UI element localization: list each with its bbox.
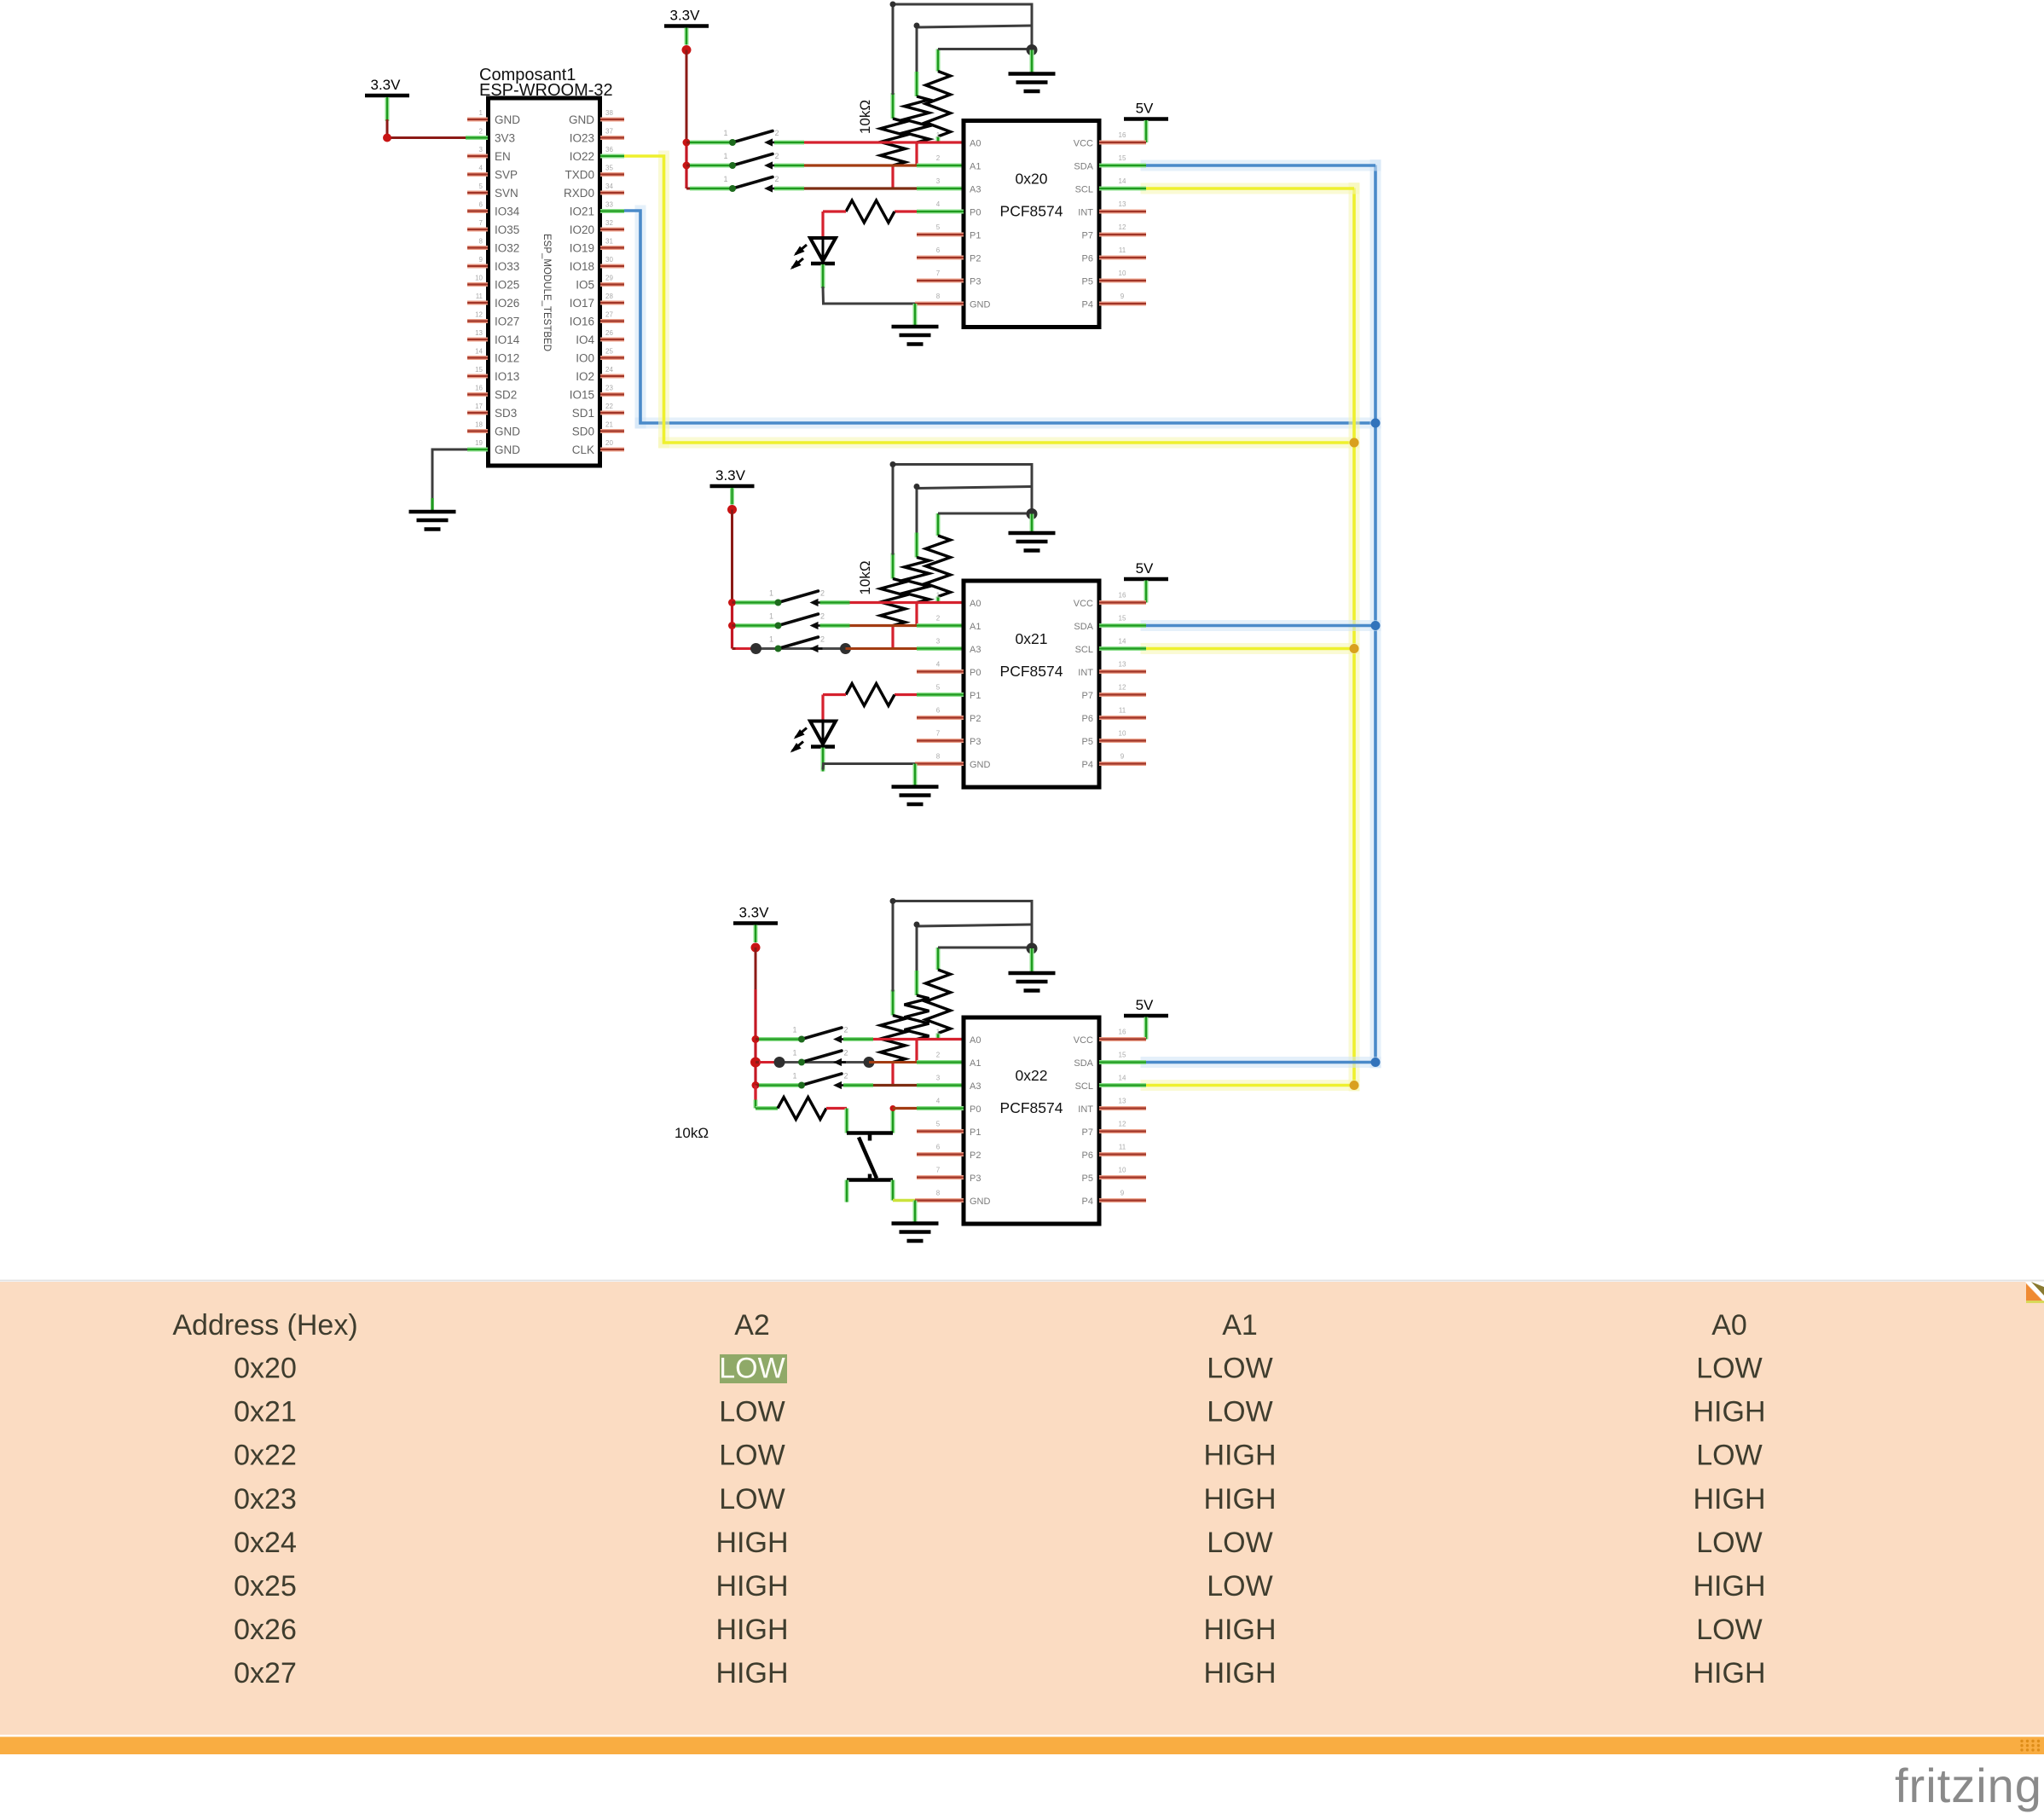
pushbutton SW10 <box>847 1133 893 1180</box>
junction bus/A3 0x22 <box>752 1081 760 1089</box>
svg-text:LOW: LOW <box>719 1483 785 1516</box>
power symbol 3.3V supply for PCF8574 0x22 <box>733 905 778 943</box>
svg-text:37: 37 <box>605 128 613 136</box>
LED D1 0x20 <box>790 238 836 269</box>
svg-text:8: 8 <box>479 238 483 246</box>
svg-text:IO26: IO26 <box>495 297 519 310</box>
junction 3.3V bus top 0x22 <box>751 943 761 953</box>
pin stub INT 0x22 <box>1099 1106 1146 1110</box>
wire resistor to A1 row 0x20 <box>915 142 918 165</box>
svg-text:P1: P1 <box>970 1127 981 1138</box>
pin stub P6 0x22 <box>1099 1152 1146 1156</box>
pin stub P3 0x21 <box>917 739 964 743</box>
svg-text:GND: GND <box>970 1197 991 1207</box>
svg-text:fritzing: fritzing <box>1895 1759 2042 1812</box>
resistor R5 10k pulldown A1 0x21 <box>905 487 929 603</box>
svg-text:2: 2 <box>479 128 483 136</box>
pin stub P6 0x21 <box>1099 716 1146 720</box>
table address configuration <box>0 1281 2044 1736</box>
svg-text:P4: P4 <box>1082 300 1093 310</box>
svg-text:3.3V: 3.3V <box>371 77 402 93</box>
svg-text:LOW: LOW <box>1696 1527 1762 1559</box>
pin stub GND 0x22 <box>915 1198 964 1203</box>
svg-text:GND: GND <box>495 426 520 438</box>
svg-text:2: 2 <box>820 635 825 644</box>
svg-text:2: 2 <box>843 1049 848 1058</box>
svg-text:IO27: IO27 <box>495 316 519 328</box>
svg-text:3V3: 3V3 <box>495 132 515 145</box>
svg-text:5V: 5V <box>1136 560 1154 577</box>
svg-text:8: 8 <box>936 753 941 761</box>
IC U3 PCF8574 0x21 <box>936 581 1126 787</box>
junction SDA 0x22 <box>1371 1058 1381 1067</box>
svg-text:EN: EN <box>495 150 511 163</box>
svg-text:IO14: IO14 <box>495 333 520 346</box>
svg-text:2: 2 <box>936 1052 941 1059</box>
wire switch to A3 pin 0x21 <box>846 647 964 650</box>
svg-text:16: 16 <box>1119 1029 1126 1036</box>
pin stub P5 0x20 <box>1099 279 1146 283</box>
pin stub P0 0x21 <box>917 669 964 674</box>
wire junction to ground symbol 0x22 <box>1030 948 1034 973</box>
svg-text:ESP-WROOM-32: ESP-WROOM-32 <box>479 81 613 100</box>
svg-text:10kΩ: 10kΩ <box>857 100 873 134</box>
wire resistor tops to ground 0x21 <box>890 461 1033 555</box>
svg-text:5: 5 <box>936 684 941 692</box>
svg-text:0x21: 0x21 <box>234 1396 297 1429</box>
svg-text:A0: A0 <box>970 599 981 609</box>
svg-text:15: 15 <box>1119 1052 1126 1059</box>
svg-text:GND: GND <box>495 113 520 126</box>
wire 3.3V bus to switch row A0 0x20 <box>686 142 732 144</box>
resistor R10 10k to button 0x22 <box>756 1086 847 1120</box>
svg-text:1: 1 <box>723 129 727 137</box>
wire resistor tops to ground 0x22 <box>890 898 1033 992</box>
svg-text:A1: A1 <box>1222 1309 1258 1342</box>
resistor R4 10k pulldown A0 0x21 <box>926 513 951 603</box>
svg-text:14: 14 <box>1119 1075 1126 1082</box>
svg-text:P0: P0 <box>970 208 981 218</box>
pin stub P5 0x22 <box>1099 1175 1146 1179</box>
svg-text:P2: P2 <box>970 254 981 264</box>
svg-text:0x25: 0x25 <box>234 1570 297 1602</box>
resistor R9 10k pulldown A3 0x22 <box>881 901 906 1063</box>
junction ground node 0x22 <box>1027 943 1038 954</box>
wire SCL 0x22 <box>1099 1080 1354 1091</box>
junction bus/A0 0x20 <box>683 139 691 147</box>
svg-text:3.3V: 3.3V <box>715 467 746 484</box>
svg-text:0x26: 0x26 <box>234 1614 297 1646</box>
svg-text:IO33: IO33 <box>495 260 519 273</box>
pin stub P4 0x22 <box>1099 1198 1146 1203</box>
svg-text:2: 2 <box>774 152 779 160</box>
svg-text:HIGH: HIGH <box>1204 1657 1277 1689</box>
svg-text:38: 38 <box>605 109 613 117</box>
svg-text:2: 2 <box>820 589 825 598</box>
junction bus/A1 0x22 <box>750 1058 761 1068</box>
ground symbol below 0x22 <box>892 1224 939 1242</box>
wire switch to A1 pin 0x21 <box>820 623 964 628</box>
svg-text:P4: P4 <box>1082 1197 1093 1207</box>
svg-text:A3: A3 <box>970 645 981 655</box>
switch S9 on A3 0x22 <box>792 1072 848 1090</box>
svg-text:7: 7 <box>936 269 941 277</box>
svg-text:Address (Hex): Address (Hex) <box>172 1309 357 1342</box>
svg-text:IO16: IO16 <box>570 316 594 328</box>
svg-text:LOW: LOW <box>1696 1614 1762 1646</box>
pin stub P7 0x20 <box>1099 233 1146 237</box>
wire button pin3 stub <box>845 1180 849 1203</box>
svg-text:1: 1 <box>479 109 483 117</box>
svg-text:IO18: IO18 <box>570 260 594 273</box>
svg-text:1: 1 <box>792 1049 796 1058</box>
wire resistor to A3 row 0x21 <box>891 626 894 649</box>
svg-text:12: 12 <box>1119 684 1126 692</box>
svg-text:2: 2 <box>843 1072 848 1081</box>
svg-text:HIGH: HIGH <box>1204 1483 1277 1516</box>
svg-text:14: 14 <box>1119 177 1126 185</box>
wire switch to A3 pin 0x22 <box>843 1083 964 1087</box>
svg-text:INT: INT <box>1078 208 1093 218</box>
svg-text:3: 3 <box>479 146 483 154</box>
svg-text:7: 7 <box>479 219 483 227</box>
svg-text:HIGH: HIGH <box>716 1657 789 1689</box>
svg-text:LOW: LOW <box>719 1353 785 1385</box>
svg-text:SDA: SDA <box>1074 1058 1093 1069</box>
svg-text:1: 1 <box>769 589 773 598</box>
wire SCL 0x20 <box>1099 183 1354 194</box>
svg-text:3: 3 <box>936 1075 941 1082</box>
svg-text:SVP: SVP <box>495 169 518 182</box>
svg-text:13: 13 <box>1119 200 1126 208</box>
svg-text:INT: INT <box>1078 668 1093 678</box>
svg-text:HIGH: HIGH <box>716 1614 789 1646</box>
svg-text:23: 23 <box>605 385 613 392</box>
switch S4 on A0 0x21 <box>769 589 825 607</box>
svg-text:7: 7 <box>936 730 941 738</box>
svg-text:IO34: IO34 <box>495 206 520 218</box>
wire switch to A1 pin 0x22 <box>869 1061 964 1063</box>
svg-text:IO22: IO22 <box>570 150 594 163</box>
wire SDA 0x22 <box>1099 1057 1375 1068</box>
junction SDA at ESP branch <box>1371 419 1381 428</box>
ground symbol below 0x20 <box>892 327 939 345</box>
svg-text:5V: 5V <box>1136 997 1154 1013</box>
svg-text:LOW: LOW <box>1207 1527 1272 1559</box>
svg-text:4: 4 <box>479 165 483 172</box>
ground symbol below 0x21 <box>892 787 939 805</box>
wire SCL vertical trunk <box>1349 188 1360 1087</box>
switch S3 on A3 0x20 <box>723 175 779 193</box>
svg-text:SDA: SDA <box>1074 622 1093 632</box>
svg-text:25: 25 <box>605 348 613 356</box>
resistor R1 10k pulldown A0 0x20 <box>926 49 951 143</box>
svg-text:P6: P6 <box>1082 1150 1093 1161</box>
svg-text:14: 14 <box>1119 638 1126 646</box>
svg-text:P2: P2 <box>970 1150 981 1161</box>
power symbol 3.3V supply for PCF8574 0x20 <box>664 8 709 45</box>
resistor R8 10k pulldown A1 0x22 <box>905 924 929 1040</box>
svg-text:HIGH: HIGH <box>1694 1396 1766 1429</box>
pin stub P2 0x21 <box>917 716 964 720</box>
svg-text:P7: P7 <box>1082 231 1093 241</box>
pin stub INT 0x20 <box>1099 210 1146 214</box>
svg-text:IO23: IO23 <box>570 132 594 145</box>
pin stub P1 0x22 <box>917 1129 964 1133</box>
wire resistor to A3 row 0x20 <box>891 165 894 188</box>
svg-text:A1: A1 <box>970 1058 981 1069</box>
pin stub P5 0x21 <box>1099 739 1146 743</box>
svg-text:11: 11 <box>476 293 483 300</box>
LED D2 0x21 <box>790 722 836 753</box>
svg-text:1: 1 <box>936 1029 941 1036</box>
svg-text:0x20: 0x20 <box>234 1353 297 1385</box>
wire resistor to button pin1 <box>845 1109 849 1133</box>
wire resistor to A3 row 0x22 <box>891 1063 894 1086</box>
pin stub P4 0x20 <box>1099 302 1146 306</box>
svg-text:HIGH: HIGH <box>716 1570 789 1602</box>
pin stub INT 0x21 <box>1099 669 1146 674</box>
svg-text:14: 14 <box>475 348 483 356</box>
svg-text:VCC: VCC <box>1074 599 1093 609</box>
switch S1 on A0 0x20 <box>723 129 779 147</box>
pin stub VCC 0x20 <box>1099 141 1146 145</box>
wire switch to A0 pin 0x20 <box>774 141 964 145</box>
svg-text:22: 22 <box>605 403 613 410</box>
svg-text:LOW: LOW <box>1207 1396 1272 1429</box>
svg-text:SD3: SD3 <box>495 407 517 420</box>
wire 3.3V supply to ESP 3V3 pin <box>387 97 488 138</box>
svg-text:VCC: VCC <box>1074 139 1093 149</box>
svg-text:PCF8574: PCF8574 <box>1000 1099 1063 1116</box>
ground symbol top right 0x22 <box>1009 973 1056 991</box>
svg-text:INT: INT <box>1078 1104 1093 1115</box>
svg-text:26: 26 <box>605 329 613 337</box>
svg-text:IO32: IO32 <box>495 242 519 255</box>
svg-text:PCF8574: PCF8574 <box>1000 663 1063 680</box>
pin stub P2 0x22 <box>917 1152 964 1156</box>
wire 3.3V bus 0x22 <box>755 948 757 989</box>
pin stub P3 0x20 <box>917 279 964 283</box>
power symbol 3.3V supply for PCF8574 0x21 <box>710 467 755 505</box>
svg-text:0x23: 0x23 <box>234 1483 297 1516</box>
svg-text:6: 6 <box>936 246 941 254</box>
power symbol 3.3V supply for ESP <box>365 77 409 96</box>
svg-text:LOW: LOW <box>719 1440 785 1472</box>
svg-text:CLK: CLK <box>572 443 594 456</box>
svg-text:LOW: LOW <box>1696 1440 1762 1472</box>
wire resistor to LED anode 0x21 <box>821 695 824 722</box>
svg-text:2: 2 <box>936 615 941 623</box>
svg-text:4: 4 <box>936 200 941 208</box>
svg-text:VCC: VCC <box>1074 1035 1093 1046</box>
svg-text:21: 21 <box>605 421 613 429</box>
svg-text:2: 2 <box>936 154 941 162</box>
svg-text:13: 13 <box>1119 661 1126 669</box>
pin stub P7 0x21 <box>1099 693 1146 697</box>
pin stub P1 0x20 <box>917 233 964 237</box>
wire button pin4 to GND <box>893 1180 915 1201</box>
wire 3.3V bus to switch row A3 0x21 <box>732 643 852 654</box>
svg-text:ESP_MODULE_TESTBED: ESP_MODULE_TESTBED <box>541 234 552 351</box>
wire ESP GND pin 19 to ground <box>432 449 488 512</box>
svg-text:6: 6 <box>936 1144 941 1151</box>
svg-text:10: 10 <box>475 275 483 282</box>
power symbol 5V supply 0x21 <box>1124 560 1168 603</box>
svg-text:35: 35 <box>605 165 613 172</box>
svg-text:HIGH: HIGH <box>1204 1614 1277 1646</box>
svg-text:P4: P4 <box>1082 760 1093 770</box>
junction bus/A0 0x22 <box>752 1035 760 1043</box>
IC U4 PCF8574 0x22 <box>936 1017 1126 1224</box>
svg-text:P3: P3 <box>970 277 981 287</box>
power symbol 5V supply 0x22 <box>1124 997 1168 1040</box>
svg-text:5: 5 <box>479 183 483 190</box>
junction ground node 0x20 <box>1027 44 1038 55</box>
svg-text:HIGH: HIGH <box>716 1527 789 1559</box>
wire 3.3V bus 0x21 <box>731 510 733 603</box>
svg-text:12: 12 <box>1119 223 1126 231</box>
wire junction to ground symbol 0x21 <box>1030 514 1034 534</box>
svg-text:A1: A1 <box>970 162 981 172</box>
svg-text:TXD0: TXD0 <box>565 169 594 182</box>
pin stub P2 0x20 <box>917 256 964 260</box>
wire LED cathode to GND pin 0x20 <box>823 264 915 304</box>
resistor R2 10k pulldown A1 0x20 <box>905 26 929 142</box>
svg-text:GND: GND <box>970 760 991 770</box>
svg-text:IO21: IO21 <box>570 206 594 218</box>
svg-text:27: 27 <box>605 311 613 319</box>
junction bus/A0 0x21 <box>728 599 736 606</box>
svg-text:IO15: IO15 <box>570 389 594 402</box>
svg-text:0x20: 0x20 <box>1016 171 1048 188</box>
wire resistor tops to ground 0x20 <box>890 2 1033 96</box>
svg-text:HIGH: HIGH <box>1694 1570 1766 1602</box>
pin stub P3 0x22 <box>917 1175 964 1179</box>
svg-text:2: 2 <box>843 1026 848 1035</box>
svg-text:P6: P6 <box>1082 254 1093 264</box>
svg-text:8: 8 <box>936 293 941 300</box>
svg-text:IO19: IO19 <box>570 242 594 255</box>
svg-text:P1: P1 <box>970 691 981 701</box>
svg-text:11: 11 <box>1119 246 1126 254</box>
svg-text:P0: P0 <box>970 1104 981 1115</box>
svg-text:31: 31 <box>605 238 613 246</box>
svg-text:4: 4 <box>936 1098 941 1105</box>
svg-text:IO0: IO0 <box>576 352 594 365</box>
pin stub VCC 0x22 <box>1099 1037 1146 1041</box>
junction 3.3V bus top 0x21 <box>727 505 737 514</box>
svg-text:1: 1 <box>769 612 773 621</box>
svg-text:2: 2 <box>820 612 825 621</box>
svg-text:P1: P1 <box>970 231 981 241</box>
wire 3.3V bus to switch row A0 0x21 <box>732 601 779 604</box>
svg-text:0x22: 0x22 <box>1016 1067 1048 1084</box>
svg-text:LOW: LOW <box>1207 1570 1272 1602</box>
svg-text:3.3V: 3.3V <box>670 8 701 24</box>
wire 3.3V bus to switch row A1 0x20 <box>686 165 732 167</box>
wire SDA 0x21 <box>1099 620 1375 631</box>
svg-text:LOW: LOW <box>1207 1353 1272 1385</box>
pin stub GND 0x21 <box>915 762 964 766</box>
svg-text:5V: 5V <box>1136 101 1154 117</box>
svg-text:A2: A2 <box>734 1309 770 1342</box>
wire 3.3V bus to switch row A1 0x21 <box>732 624 779 627</box>
resistor R6 10k pulldown A3 0x21 <box>881 465 906 626</box>
svg-text:1: 1 <box>792 1072 796 1081</box>
svg-text:1: 1 <box>723 175 727 183</box>
ground symbol top right 0x21 <box>1009 533 1056 551</box>
svg-text:16: 16 <box>475 385 483 392</box>
svg-text:SCL: SCL <box>1075 1081 1093 1092</box>
resistor R_led 330 0x21 <box>823 684 964 706</box>
svg-text:A3: A3 <box>970 1081 981 1092</box>
junction SDA 0x21 <box>1371 621 1381 630</box>
svg-text:A0: A0 <box>970 139 981 149</box>
switch S6 on A3 0x21 <box>769 635 825 653</box>
svg-text:36: 36 <box>605 146 613 154</box>
svg-text:SCL: SCL <box>1075 185 1093 195</box>
pin stub P4 0x21 <box>1099 762 1146 766</box>
wire LED cathode to GND pin 0x21 <box>823 748 915 772</box>
svg-text:SD2: SD2 <box>495 389 517 402</box>
svg-text:10: 10 <box>1119 269 1126 277</box>
svg-text:9: 9 <box>1120 753 1125 761</box>
svg-text:6: 6 <box>936 707 941 715</box>
svg-text:19: 19 <box>475 439 483 447</box>
svg-text:1: 1 <box>723 152 727 160</box>
svg-text:P7: P7 <box>1082 691 1093 701</box>
wire resistor to LED anode 0x20 <box>821 212 824 239</box>
svg-text:A3: A3 <box>970 185 981 195</box>
svg-text:SVN: SVN <box>495 187 518 200</box>
wire SDA vertical trunk <box>1370 165 1381 1063</box>
svg-text:P2: P2 <box>970 714 981 724</box>
svg-text:4: 4 <box>936 661 941 669</box>
svg-text:P3: P3 <box>970 1174 981 1184</box>
table bottom bar <box>0 1737 2044 1755</box>
svg-text:IO2: IO2 <box>576 370 594 383</box>
junction bus/A1 0x21 <box>728 622 736 629</box>
svg-text:2: 2 <box>774 129 779 137</box>
svg-text:RXD0: RXD0 <box>564 187 594 200</box>
wire resistor to A1 row 0x22 <box>915 1040 918 1063</box>
svg-text:A1: A1 <box>970 622 981 632</box>
svg-text:15: 15 <box>1119 154 1126 162</box>
svg-text:HIGH: HIGH <box>1694 1657 1766 1689</box>
svg-text:GND: GND <box>569 113 594 126</box>
svg-text:33: 33 <box>605 201 613 209</box>
svg-text:3: 3 <box>936 177 941 185</box>
svg-text:1: 1 <box>936 131 941 139</box>
svg-text:13: 13 <box>475 329 483 337</box>
wire button pin2 to P0 pin <box>890 1105 964 1133</box>
svg-text:11: 11 <box>1119 1144 1126 1151</box>
IC Composant1 ESP-WROOM-32 module <box>467 66 624 466</box>
svg-text:0x21: 0x21 <box>1016 630 1048 647</box>
svg-text:IO4: IO4 <box>576 333 594 346</box>
wire 3.3V bus to switch row A1 0x22 <box>756 1057 875 1068</box>
svg-text:10: 10 <box>1119 1167 1126 1174</box>
svg-text:10: 10 <box>1119 730 1126 738</box>
svg-text:P7: P7 <box>1082 1127 1093 1138</box>
IC U2 PCF8574 0x20 <box>936 121 1126 327</box>
svg-text:0x22: 0x22 <box>234 1440 297 1472</box>
svg-text:1: 1 <box>936 592 941 600</box>
wire SDA 0x20 <box>1099 160 1375 171</box>
svg-text:IO5: IO5 <box>576 279 594 292</box>
svg-text:IO12: IO12 <box>495 352 519 365</box>
